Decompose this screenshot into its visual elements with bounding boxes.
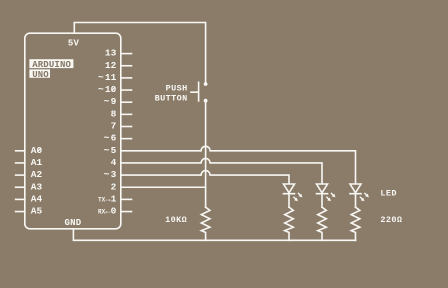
resistor R3 220 ohm	[318, 207, 327, 240]
svg-text:4: 4	[111, 157, 117, 168]
svg-text:A1: A1	[31, 157, 43, 168]
wire LED D1 cathode to resistor R2	[288, 194, 290, 208]
resistor R2 220 ohm	[285, 207, 294, 240]
svg-text:10KΩ: 10KΩ	[165, 215, 187, 225]
svg-text:2: 2	[111, 181, 117, 192]
svg-text:LED: LED	[380, 189, 397, 199]
svg-text:UNO: UNO	[32, 70, 49, 80]
resistor R1 10K pulldown	[201, 207, 210, 240]
wire pin 2 to button node	[121, 186, 206, 188]
label badge ARDUINO	[29, 59, 73, 68]
wire pin 5 to LED D3 (hops over button wire)	[121, 146, 356, 183]
zero slash	[111, 87, 115, 91]
wire pin 3 to LED D1 (hops over button wire)	[121, 171, 289, 183]
svg-text:~3: ~3	[104, 169, 117, 180]
svg-text:A5: A5	[31, 206, 43, 217]
svg-text:~6: ~6	[104, 133, 117, 144]
pin A2 stub wire	[16, 174, 25, 176]
pin A4 stub wire	[16, 198, 25, 200]
wire LED D2 cathode to resistor R3	[321, 194, 323, 208]
pin A5 stub wire	[16, 211, 25, 213]
pin 12 stub wire	[121, 65, 132, 67]
svg-text:ARDUINO: ARDUINO	[32, 60, 71, 70]
svg-text:BUTTON: BUTTON	[155, 93, 188, 103]
svg-text:A0: A0	[31, 145, 43, 156]
svg-text:~10: ~10	[98, 84, 117, 95]
pin 10 stub wire	[121, 89, 132, 91]
pin 1 stub wire	[121, 198, 132, 200]
svg-text:~11: ~11	[98, 72, 117, 83]
junction dot button bottom terminal	[204, 99, 208, 103]
LED D2 light arrows	[326, 193, 335, 201]
svg-text:GND: GND	[65, 218, 82, 228]
LED D1 symbol	[284, 184, 295, 194]
svg-text:8: 8	[111, 108, 117, 119]
svg-text:A2: A2	[31, 169, 43, 180]
svg-text:12: 12	[105, 60, 117, 71]
svg-text:~5: ~5	[104, 145, 117, 156]
svg-text:220Ω: 220Ω	[380, 215, 402, 225]
pin 13 stub wire	[121, 53, 132, 55]
pin A1 stub wire	[16, 162, 25, 164]
resistor R4 220 ohm	[351, 207, 360, 240]
label badge UNO	[29, 69, 50, 77]
pin 9 stub wire	[121, 101, 132, 103]
LED D3 light arrows	[360, 193, 369, 201]
svg-text:7: 7	[111, 121, 117, 132]
wire 5V from arduino to push button	[74, 23, 205, 82]
arduino U1 body	[25, 33, 121, 229]
svg-text:5V: 5V	[68, 38, 80, 48]
LED D2 symbol	[317, 184, 328, 194]
wire LED D3 cathode to resistor R4	[355, 194, 357, 208]
pin A3 stub wire	[16, 186, 25, 188]
pin 11 stub wire	[121, 77, 132, 79]
push button S1 actuator	[191, 82, 199, 101]
svg-text:PUSH: PUSH	[166, 84, 188, 94]
junction dot button top terminal	[204, 82, 208, 86]
svg-text:A4: A4	[31, 194, 43, 205]
ground rail wire	[73, 229, 355, 241]
pin A0 stub wire	[16, 150, 25, 152]
svg-text:13: 13	[105, 48, 117, 59]
LED D3 symbol	[350, 184, 361, 194]
svg-text:~9: ~9	[104, 96, 117, 107]
LED D1 light arrows	[293, 193, 302, 201]
zero slash	[37, 148, 41, 152]
pin 7 stub wire	[121, 126, 132, 128]
pin 0 stub wire	[121, 211, 132, 213]
pin 8 stub wire	[121, 113, 132, 115]
wire button bottom terminal down to resistor R1	[205, 102, 207, 207]
svg-text:A3: A3	[31, 181, 43, 192]
wire pin 4 to LED D2 (hops over button wire)	[121, 158, 322, 182]
pin 6 stub wire	[121, 138, 132, 140]
